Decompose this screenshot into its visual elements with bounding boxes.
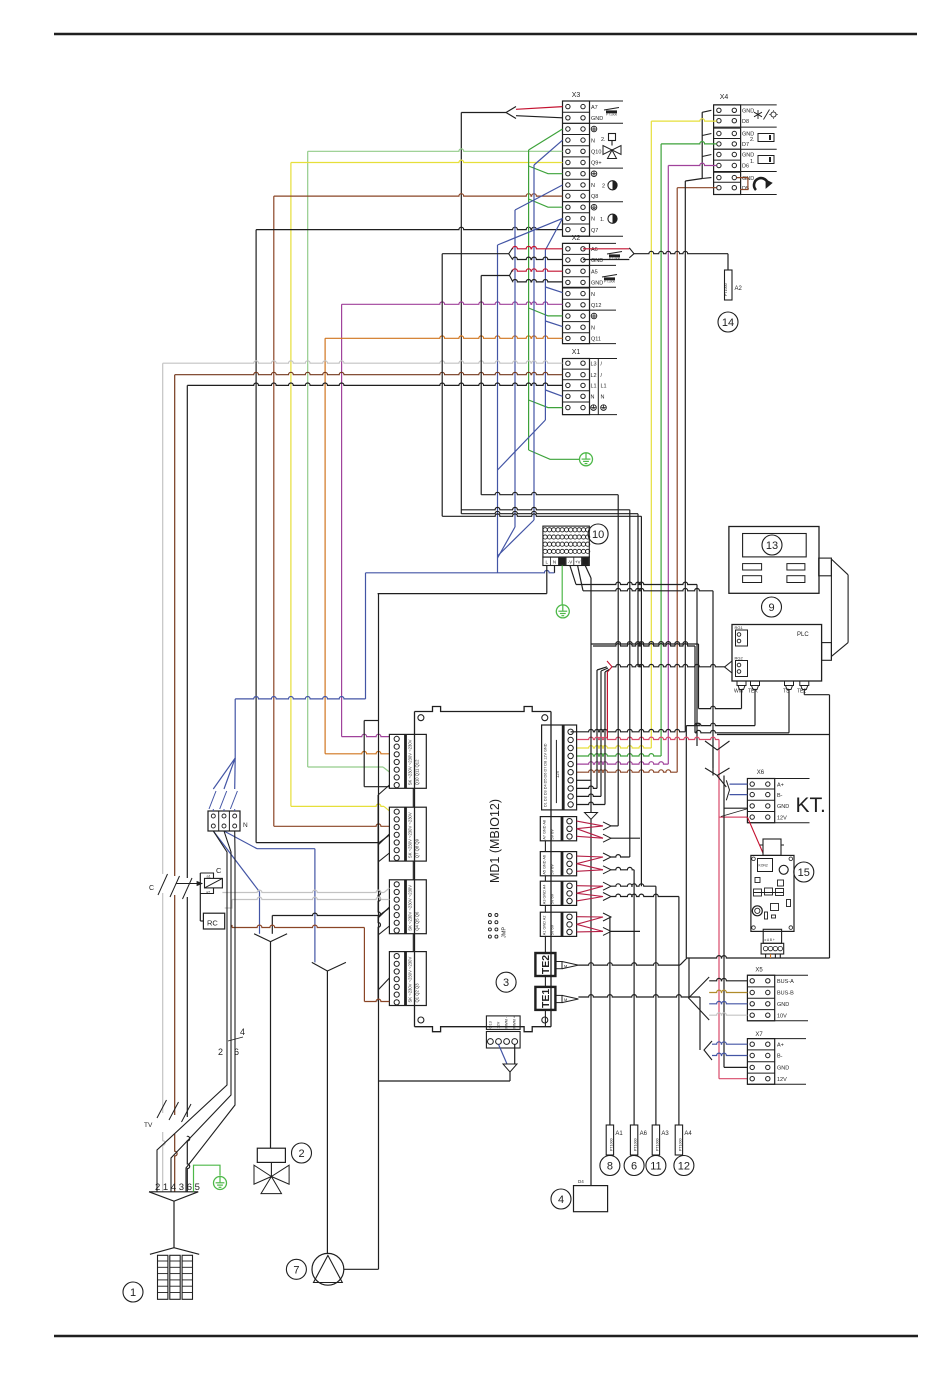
- plug TE1: [555, 995, 562, 1002]
- wire N blue 2: [515, 185, 563, 210]
- wire Q10 green: [308, 149, 563, 151]
- svg-text:Q9+: Q9+: [591, 161, 602, 167]
- wire SK-pump riser: [378, 594, 380, 1270]
- svg-text:A3 GND A4: A3 GND A4: [543, 885, 547, 905]
- sensor probe A3 PT1000: [652, 1125, 659, 1155]
- PLC plug TEX: [751, 681, 760, 686]
- icon rotary knob (X4 D5): [754, 178, 768, 190]
- svg-text:X2: X2: [572, 235, 581, 242]
- svg-text:GND: GND: [591, 281, 603, 287]
- svg-text:PT1000: PT1000: [655, 1138, 659, 1151]
- cable funnel valve: [254, 934, 287, 942]
- wire choke PE green: [561, 566, 563, 605]
- svg-text:A+: A+: [777, 782, 784, 788]
- svg-text:A6: A6: [640, 1131, 648, 1137]
- callout 2: [292, 1143, 312, 1163]
- svg-text:PT1000: PT1000: [634, 1138, 638, 1151]
- wire KON2 red diag: [747, 817, 763, 853]
- svg-text:PLC: PLC: [797, 632, 809, 638]
- svg-text:N: N: [591, 325, 595, 331]
- wire L2 brown: [175, 372, 563, 374]
- MD1 digital connector D1-D8 12V GND: [542, 725, 577, 810]
- svg-text:GND: GND: [777, 1002, 789, 1008]
- svg-text:X3: X3: [572, 92, 581, 99]
- wire A5 sensor run: [481, 492, 618, 494]
- sensor icon PT1000 (X2 A5/GND): [602, 275, 617, 278]
- wire X5 10V: [709, 1013, 747, 1015]
- svg-text:11: 11: [650, 1161, 661, 1173]
- wire PLC TE2 drop: [803, 690, 805, 695]
- wire X7 B-: [712, 1053, 747, 1055]
- svg-text:2: 2: [602, 184, 605, 190]
- cable MD1-A5 to X2: [577, 855, 603, 858]
- svg-text:8: 8: [607, 1161, 613, 1173]
- cable MD1-A4 to probe: [577, 893, 603, 896]
- wire coil grey 2: [225, 900, 232, 909]
- svg-text:12V: 12V: [777, 1077, 787, 1083]
- svg-text:Q13: Q13: [489, 1021, 493, 1028]
- svg-text:D7: D7: [742, 142, 749, 148]
- svg-text:N: N: [591, 292, 595, 298]
- svg-text:KON2: KON2: [759, 864, 768, 868]
- wire A5 red: [513, 269, 563, 271]
- svg-text:L1: L1: [601, 384, 607, 390]
- wire valve phase black: [379, 908, 389, 916]
- earth symbol X1: [580, 453, 593, 466]
- PLC plug TE2: [800, 681, 809, 686]
- svg-text:A4: A4: [684, 1131, 692, 1137]
- callout 11: [646, 1156, 666, 1176]
- svg-text:GND: GND: [742, 153, 754, 159]
- wire PLC TEX: [754, 690, 756, 726]
- wire choke L black: [546, 566, 548, 594]
- console bracket: [819, 558, 832, 576]
- sensor probe A1 PT1000: [606, 1125, 613, 1155]
- heater element 1: [150, 1248, 199, 1255]
- svg-text:Q4 Q5 Q6: Q4 Q5 Q6: [415, 911, 420, 931]
- earth symbol TV: [214, 1177, 227, 1190]
- MD1 relay connector block2: [389, 807, 426, 861]
- cable funnel A5: [510, 270, 513, 282]
- svg-text:M: M: [564, 997, 567, 1002]
- terminal TE1: [535, 987, 555, 1010]
- sensor icon PT1000 (X2 A6/GND): [607, 252, 622, 255]
- cable funnel X6 blue: [726, 780, 729, 800]
- cable MD1-A3 to probe: [577, 885, 603, 888]
- plug TE2: [555, 962, 562, 969]
- callout 1: [123, 1282, 143, 1302]
- MD1 connector Q13 12V PWM: [486, 1016, 520, 1030]
- wire A7 sensor run: [461, 507, 630, 509]
- wire A2 right red: [583, 248, 629, 250]
- svg-text:12: 12: [678, 1161, 690, 1173]
- callout 3: [496, 972, 516, 992]
- svg-text:D4: D4: [578, 1179, 584, 1184]
- svg-text:N: N: [601, 395, 605, 401]
- cable funnel heater: [149, 1192, 198, 1201]
- callout 6: [624, 1156, 644, 1176]
- svg-text:D1 D2 D3 D4 D5 D6 D7 D8 12V GN: D1 D2 D3 D4 D5 D6 D7 D8 12V GND: [544, 743, 548, 807]
- pump 7: [312, 1253, 344, 1285]
- wire N blue 1: [534, 140, 563, 165]
- PLC plug TS: [785, 681, 794, 686]
- svg-text:D8: D8: [742, 119, 749, 125]
- wire A6 sensor run: [442, 514, 641, 516]
- svg-text:+V: +V: [575, 560, 581, 565]
- svg-text:B-: B-: [777, 793, 783, 799]
- wire D7 green: [661, 142, 717, 144]
- cable funnel X7: [704, 1041, 712, 1060]
- wire A5 GND black: [513, 279, 563, 281]
- wire L1 black: [187, 383, 562, 385]
- wire N blue run: [366, 570, 555, 572]
- MD1 analog connector A7/A8: [540, 817, 576, 841]
- wire D8 yellow: [651, 119, 716, 121]
- svg-text:PWM +: PWM +: [513, 1015, 517, 1028]
- svg-text:BUS-A: BUS-A: [777, 979, 794, 985]
- svg-text:X5: X5: [755, 968, 763, 974]
- svg-text:A+: A+: [777, 1042, 784, 1048]
- sensor icon PT1000 (X3 A7/GND): [604, 108, 619, 111]
- svg-text:10: 10: [592, 529, 604, 541]
- svg-text:GND: GND: [591, 116, 603, 122]
- svg-text:Q12: Q12: [591, 303, 601, 309]
- svg-text:M: M: [564, 963, 567, 968]
- svg-text:TV: TV: [144, 1122, 153, 1129]
- N-block fuse marks: [209, 791, 216, 809]
- svg-text:C: C: [216, 866, 222, 875]
- svg-text:Q1 Q2 Q3: Q1 Q2 Q3: [415, 983, 420, 1003]
- motor valve 2: [257, 1148, 285, 1162]
- svg-text:2.: 2.: [601, 137, 606, 143]
- svg-text:PT1000: PT1000: [724, 283, 728, 296]
- wire v697: [696, 585, 698, 747]
- wire D3 riser: [577, 786, 597, 788]
- cable funnel A7: [506, 107, 516, 119]
- wire N blue 3: [498, 218, 563, 245]
- EMI filter choke 10: [543, 526, 589, 557]
- MD1 relay connector block4: [389, 952, 426, 1006]
- svg-text:12V: 12V: [497, 1021, 501, 1028]
- svg-text:5V 6V: 5V 6V: [551, 829, 555, 840]
- svg-text:N: N: [553, 560, 556, 565]
- svg-text:SK ~230V ~230V ~230V: SK ~230V ~230V ~230V: [408, 957, 413, 1003]
- svg-text:A6: A6: [591, 247, 598, 253]
- callout 10: [588, 524, 608, 544]
- svg-text:RC: RC: [207, 919, 218, 928]
- svg-text:X6: X6: [757, 770, 765, 776]
- top border line: [54, 33, 917, 36]
- wire X6 GND: [723, 776, 725, 1068]
- PLC plug WM: [737, 681, 746, 686]
- wire funnel link: [712, 750, 714, 768]
- wire X4 D5 loop: [737, 178, 748, 190]
- terminal block N: [208, 811, 240, 831]
- svg-text:1.: 1.: [600, 217, 605, 223]
- svg-text:GND: GND: [742, 109, 754, 115]
- callout 8: [600, 1156, 620, 1176]
- svg-text:TE1: TE1: [540, 989, 552, 1008]
- callout 13: [762, 535, 782, 555]
- earth symbol choke: [556, 605, 569, 618]
- svg-text:N: N: [591, 217, 595, 223]
- svg-text:RG1: RG1: [735, 625, 744, 630]
- svg-text:13: 13: [766, 540, 778, 552]
- callout 4: [551, 1189, 571, 1209]
- PLC box: [732, 625, 822, 682]
- sensor probe A4 PT1000: [675, 1125, 682, 1155]
- svg-text:Q11: Q11: [591, 337, 601, 343]
- wire coil grey 1: [222, 890, 384, 892]
- controller board MD1 (MBIO12): [415, 707, 552, 712]
- svg-text:PT1000: PT1000: [604, 280, 615, 284]
- wire PLC WM: [741, 690, 743, 709]
- svg-text:GND: GND: [777, 1066, 789, 1072]
- cable MD1-A1 to probe: [577, 916, 603, 918]
- svg-text:N: N: [591, 138, 595, 144]
- jumper block JMP: [488, 914, 491, 917]
- svg-text:2: 2: [298, 1148, 304, 1160]
- wire choke -V run: [570, 566, 576, 585]
- svg-text:15: 15: [798, 867, 810, 879]
- wire A6 GND black: [513, 257, 563, 259]
- svg-text:L1: L1: [591, 384, 597, 390]
- MD1 block links: [412, 788, 414, 807]
- wire Q7 black: [256, 227, 562, 229]
- svg-text:L2: L2: [591, 373, 597, 379]
- svg-text:N: N: [591, 395, 595, 401]
- earth wire TV green: [194, 1165, 221, 1192]
- svg-text:D6: D6: [742, 164, 749, 170]
- svg-text:Q10: Q10: [591, 150, 601, 156]
- wire GND black X4-MD1: [684, 181, 686, 732]
- svg-text:Q10 Q11 Q12: Q10 Q11 Q12: [415, 759, 420, 785]
- wire choke +V run: [578, 566, 583, 591]
- sensor probe A6 PT1000: [630, 1125, 637, 1155]
- wire PLC TS: [788, 690, 790, 733]
- wire choke N blue link: [554, 566, 556, 573]
- cable funnel pump: [312, 962, 346, 971]
- wire X5 BUS-B: [709, 990, 747, 992]
- wire bundle 2-4-6: [157, 831, 227, 1192]
- svg-text:N: N: [243, 822, 248, 829]
- sensor probe A2 PT1000: [725, 270, 733, 300]
- MD1 analog connector A5/A6: [540, 852, 576, 876]
- wire D2 riser: [577, 794, 601, 796]
- svg-text:4: 4: [558, 1194, 564, 1206]
- MD1 relay connector block3: [389, 880, 426, 934]
- callout 12: [674, 1156, 694, 1176]
- svg-text:GND: GND: [777, 804, 789, 810]
- svg-text:PT1000: PT1000: [678, 1138, 682, 1151]
- wire Q12 purple: [342, 302, 563, 304]
- svg-text:PT1000: PT1000: [606, 113, 617, 117]
- svg-text:2: 2: [218, 1047, 223, 1057]
- svg-text:-V: -V: [568, 560, 573, 565]
- bottom border line: [54, 1335, 918, 1338]
- svg-text:12V: 12V: [555, 770, 560, 778]
- svg-text:L3: L3: [591, 361, 597, 367]
- svg-text:SK ~230V ~230V ~230V: SK ~230V ~230V ~230V: [408, 812, 413, 858]
- svg-text:4: 4: [240, 1027, 245, 1037]
- wire A2 right black: [583, 259, 629, 261]
- svg-text:6: 6: [234, 1047, 239, 1057]
- wire A6 red: [513, 246, 563, 248]
- cable MD1-A6 to probe: [577, 864, 603, 870]
- wire TE1 link: [578, 995, 700, 997]
- svg-text:2.: 2.: [750, 137, 755, 143]
- interface PCB 15: [751, 855, 794, 931]
- svg-text:14: 14: [722, 317, 734, 329]
- svg-text:3: 3: [503, 977, 509, 989]
- svg-text:A2: A2: [735, 286, 743, 292]
- svg-text:A5: A5: [591, 269, 598, 275]
- svg-text:A1: A1: [615, 1131, 623, 1137]
- cable MD1-A8: [577, 829, 603, 839]
- callout 9: [762, 597, 782, 617]
- svg-text:Q7: Q7: [591, 228, 598, 234]
- svg-text:A5 GND A6: A5 GND A6: [543, 855, 547, 875]
- wire A7 red: [516, 107, 563, 110]
- wire A7 GND black: [516, 116, 563, 118]
- svg-text:Q7 Q8 Q9: Q7 Q8 Q9: [415, 838, 420, 858]
- svg-text:MD1 (MBIO12): MD1 (MBIO12): [488, 799, 502, 883]
- svg-text:BUS-B: BUS-B: [777, 991, 794, 997]
- wire D4 cable: [577, 779, 591, 781]
- wire X7 A+: [712, 1042, 747, 1044]
- MD1 analog connector A3/A4: [540, 881, 576, 905]
- svg-text:B-: B-: [777, 1054, 783, 1060]
- wire 12V red run: [577, 737, 719, 739]
- svg-text:Q8: Q8: [591, 194, 598, 200]
- svg-text:JMP: JMP: [502, 927, 508, 938]
- wire X4 GND chain: [701, 112, 703, 178]
- terminal TE2: [535, 953, 555, 976]
- wire TE2 link: [578, 963, 680, 965]
- svg-text:C: C: [149, 885, 154, 892]
- svg-text:5V 6V: 5V 6V: [551, 864, 555, 875]
- snubber RC: [203, 913, 224, 929]
- wire X5 BUS-A: [709, 978, 747, 980]
- cable funnel X5: [689, 977, 710, 1020]
- svg-text:KT.: KT.: [796, 794, 826, 817]
- svg-text:A1 GND A2: A1 GND A2: [543, 916, 547, 936]
- wire Q11 orange: [325, 336, 562, 338]
- cable funnel PWM: [499, 1044, 508, 1064]
- cable MD1-A2 stub: [577, 924, 603, 931]
- svg-text:a1: a1: [207, 875, 211, 879]
- svg-text:N: N: [591, 183, 595, 189]
- wire Q8 brown: [274, 194, 563, 196]
- svg-text:10V: 10V: [777, 1013, 787, 1019]
- wire N blue chain X2-X1: [545, 218, 562, 250]
- PCB 15 wires down: [765, 954, 767, 958]
- svg-text:A3: A3: [661, 1131, 669, 1137]
- svg-text:12V: 12V: [777, 815, 787, 821]
- cable MD1-A7 to X3: [577, 821, 603, 826]
- svg-text:RG2: RG2: [735, 656, 744, 661]
- svg-text:7: 7: [293, 1264, 299, 1276]
- svg-text:PT1000: PT1000: [609, 1138, 613, 1151]
- MD1 analog connector A1/A2: [540, 912, 576, 936]
- callout 15: [794, 862, 814, 882]
- wire v713: [712, 591, 714, 776]
- MD1 analog links: [544, 841, 546, 852]
- svg-text:5V 6V: 5V 6V: [551, 924, 555, 935]
- svg-text:X7: X7: [755, 1032, 763, 1038]
- svg-text:SK ~230V ~230V ~230V: SK ~230V ~230V ~230V: [408, 885, 413, 931]
- svg-text:SK ~230V ~230V ~230V: SK ~230V ~230V ~230V: [408, 739, 413, 785]
- svg-text:X1: X1: [572, 349, 581, 356]
- wire RC brown: [231, 925, 233, 928]
- wire PE green chain: [529, 129, 563, 150]
- svg-text:5V 6V: 5V 6V: [551, 893, 555, 904]
- wire L3 grey: [163, 361, 563, 363]
- choke terminal strip L N PE -V +V PE: [543, 557, 589, 566]
- cable funnel X6 upper: [705, 741, 730, 750]
- MD1 relay connector block1: [389, 734, 426, 788]
- PCB 15 screw terminals: [763, 929, 781, 943]
- callout 7: [286, 1259, 306, 1279]
- operator display 13: [729, 527, 819, 594]
- svg-text:9: 9: [768, 602, 774, 614]
- svg-text:TE2: TE2: [540, 955, 552, 974]
- svg-text:A7: A7: [591, 105, 598, 111]
- cable bracket A2: [629, 248, 634, 258]
- MD1 SK chain: [378, 795, 380, 1001]
- wire D1 riser: [577, 802, 605, 804]
- svg-text:o A B +: o A B +: [765, 938, 775, 942]
- svg-text:A7 GND A8: A7 GND A8: [543, 820, 547, 840]
- wire N blue N-block to pump funnel: [224, 831, 257, 849]
- callout 14: [718, 312, 738, 332]
- svg-text:1.: 1.: [750, 159, 755, 165]
- cable PLC RG2: [725, 661, 732, 673]
- icon heating/cooling (X4 D8): [757, 110, 759, 119]
- wire D6 purple: [668, 163, 716, 165]
- wire D5 brown: [677, 187, 717, 189]
- wire RG2 red drop: [606, 673, 608, 740]
- wire X5 GND: [709, 1001, 747, 1003]
- wire Q9+ yellow: [291, 160, 563, 162]
- wire N blue N-block to valve funnel: [213, 831, 259, 892]
- svg-text:1: 1: [130, 1287, 136, 1299]
- svg-text:PWM -: PWM -: [505, 1016, 509, 1028]
- cable funnel A6: [509, 248, 513, 260]
- svg-text:6: 6: [631, 1161, 637, 1173]
- svg-text:X4: X4: [720, 94, 729, 101]
